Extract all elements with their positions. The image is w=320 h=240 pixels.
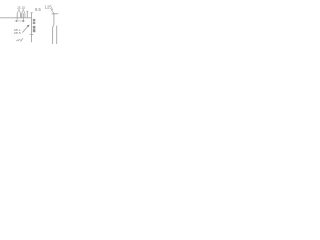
svg-text:25: 25 [22, 6, 25, 10]
svg-text:25: 25 [17, 6, 20, 10]
svg-text:125: 125 [45, 4, 53, 9]
svg-text:9.5: 9.5 [35, 7, 41, 12]
svg-text:08.5: 08.5 [14, 31, 21, 35]
